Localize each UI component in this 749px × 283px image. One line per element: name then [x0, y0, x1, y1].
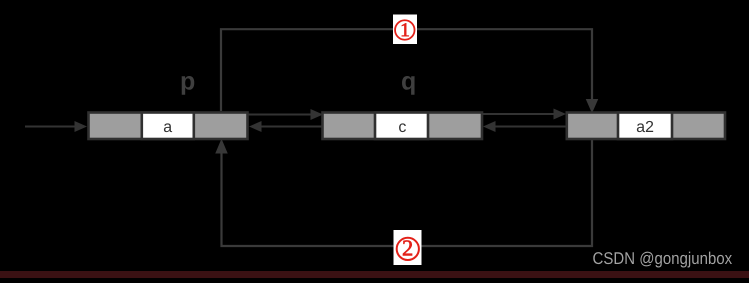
circled 2 red [397, 238, 419, 260]
node a2 (3 cells, data a2) [567, 113, 725, 140]
label box 2 [394, 230, 422, 265]
arrow a2.prev to q [483, 121, 567, 132]
head arrow into node p [25, 121, 87, 132]
label q [402, 76, 415, 95]
circled 1 red [395, 20, 415, 40]
wire bottom loop (2): from node a2 bottom, down, across, up into node p [216, 140, 592, 246]
watermark CSDN [593, 252, 732, 268]
wire top loop (1): from node p next-cell up, across, down into node a2 [221, 29, 598, 112]
arrow q.next to a2 [482, 109, 566, 120]
node p (3 cells, data a) [89, 113, 248, 140]
arrow q.prev to p [249, 121, 322, 132]
bottom maroon strip [0, 271, 749, 278]
arrow p.next to q [248, 109, 323, 120]
node q (3 cells, data c) [323, 113, 483, 140]
label box 1 [393, 15, 417, 45]
label p [182, 76, 195, 95]
